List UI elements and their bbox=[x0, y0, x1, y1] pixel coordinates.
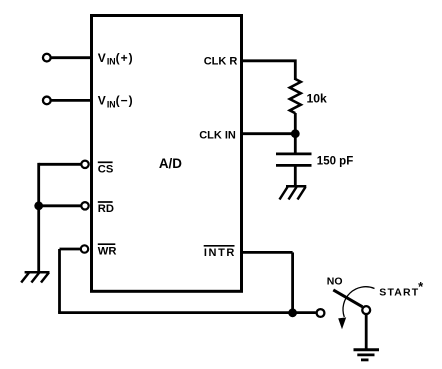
junction dot left bus bbox=[34, 201, 43, 210]
wire CLK R bbox=[241, 61, 295, 80]
pin bubble CS bbox=[81, 161, 88, 168]
svg-text:VIN(−): VIN(−) bbox=[98, 94, 134, 110]
terminal VIN(-) bbox=[43, 97, 51, 105]
ground capacitor (hatched) bbox=[280, 186, 307, 199]
ground earth (3-bar) bbox=[354, 350, 380, 360]
switch SW1 pole circle bbox=[362, 306, 370, 314]
momentary action arc arrow bbox=[338, 287, 374, 329]
junction dot CLK IN node bbox=[291, 129, 300, 138]
terminal VIN(+) bbox=[43, 54, 51, 62]
svg-text:START: START bbox=[379, 287, 419, 299]
pin bubble RD bbox=[81, 202, 88, 209]
svg-text:VIN(+): VIN(+) bbox=[98, 51, 134, 67]
wire CLK IN bbox=[241, 132, 295, 135]
terminal bottom open circle bbox=[317, 309, 325, 317]
wire INTR down bbox=[291, 252, 294, 312]
wire VIN(+) input bbox=[50, 56, 92, 59]
svg-text:150 pF: 150 pF bbox=[317, 155, 353, 167]
capacitor C1 150pF bbox=[276, 154, 312, 166]
junction dot bottom bbox=[288, 308, 297, 317]
wire WR down to bottom bbox=[58, 249, 61, 313]
pin bubble WR bbox=[81, 245, 88, 252]
pin label RD with overline bbox=[98, 202, 114, 215]
A/D converter box U1 bbox=[92, 16, 242, 292]
wire VIN(-) input bbox=[50, 99, 92, 102]
wire bottom horizontal bbox=[58, 311, 316, 314]
switch SW1 arm bbox=[333, 290, 362, 307]
svg-text:10k: 10k bbox=[307, 91, 328, 105]
svg-text:INTR: INTR bbox=[204, 247, 236, 259]
svg-text:CLK R: CLK R bbox=[204, 56, 238, 68]
pin label WR with overline bbox=[98, 244, 117, 257]
svg-text:WR: WR bbox=[98, 245, 117, 257]
wire left ground bus vertical bbox=[37, 163, 40, 271]
wire resistor to CLK IN node bbox=[294, 113, 297, 136]
wire WR left segment bbox=[60, 248, 81, 251]
pin label INTR with overline bbox=[204, 246, 236, 259]
wire capacitor to ground bbox=[294, 167, 297, 187]
svg-text:CS: CS bbox=[98, 163, 114, 175]
svg-text:NO: NO bbox=[327, 275, 343, 287]
wire CS to left bus bbox=[39, 163, 81, 166]
svg-text:RD: RD bbox=[98, 203, 114, 215]
svg-text:CLK IN: CLK IN bbox=[199, 130, 236, 142]
wire switch to ground bbox=[365, 315, 368, 350]
wire INTR right segment bbox=[241, 251, 293, 254]
ground left (hatched) bbox=[21, 272, 49, 282]
svg-text:A/D: A/D bbox=[159, 156, 182, 171]
resistor R1 10k bbox=[290, 79, 301, 113]
pin label CS with overline bbox=[98, 162, 114, 175]
wire node to capacitor bbox=[294, 134, 297, 153]
wire RD to left bus bbox=[39, 204, 81, 207]
